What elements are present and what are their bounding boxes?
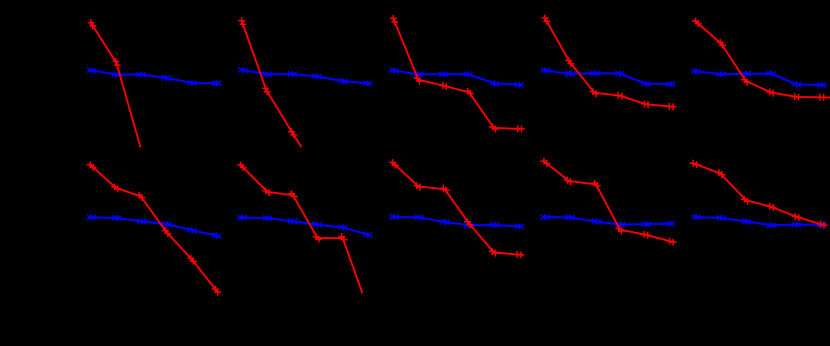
blue x-series line s9 [545,217,671,225]
red plus markers s9 [541,158,677,246]
red plus-series line s10 [695,164,822,225]
red plus markers s10 [690,160,828,229]
red plus markers s4 [542,15,677,111]
blue x markers s5 [691,69,826,88]
red plus-series line s6 [92,166,217,290]
red plus-series line s2 [242,23,301,147]
blue x markers s1 [87,68,221,86]
red plus-series line s7 [242,166,362,292]
red plus-series line s4 [546,20,671,107]
blue x-series line s1 [92,70,217,83]
red plus-series line s3 [394,20,520,129]
blue x markers s3 [390,68,524,88]
red plus-series line s1 [92,24,140,146]
blue x markers s8 [390,215,524,230]
blue x-series line s8 [394,217,519,226]
blue x-series line s2 [243,70,368,83]
blue x markers s2 [239,67,373,86]
red plus-series line s9 [545,162,671,241]
blue x-series line s4 [546,70,671,84]
red plus-series line s8 [394,164,519,255]
blue x-series line s10 [696,217,822,225]
blue x markers s4 [541,68,675,87]
blue x markers s9 [541,215,675,228]
red plus markers s1 [88,19,121,68]
red plus markers s7 [237,162,347,244]
blue x-series line s6 [91,217,216,235]
blue x-series line s5 [696,71,822,85]
blue x-series line s7 [242,218,368,235]
red plus-series line s5 [697,22,830,97]
blue x markers s6 [87,215,221,239]
red plus markers s5 [692,18,827,101]
blue x-series line s3 [394,71,519,85]
red plus markers s8 [389,159,524,258]
blue x markers s7 [238,215,373,238]
red plus markers s2 [238,17,297,138]
red plus markers s6 [87,162,221,296]
blue x markers s10 [692,215,827,228]
red plus markers s3 [390,15,525,132]
